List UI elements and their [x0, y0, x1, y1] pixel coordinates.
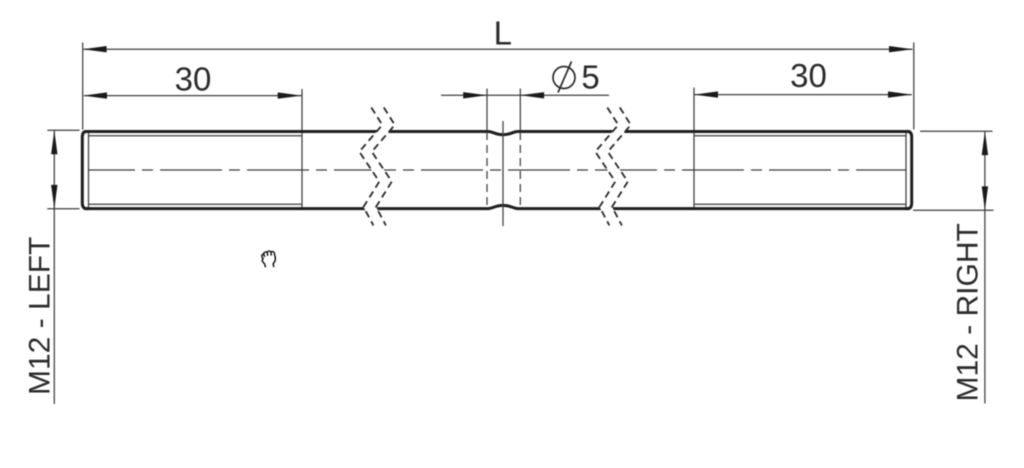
svg-text:5: 5 [581, 59, 599, 96]
svg-text:30: 30 [175, 61, 212, 98]
svg-text:M12 - LEFT: M12 - LEFT [24, 237, 57, 395]
svg-text:30: 30 [790, 57, 827, 94]
svg-text:M12 - RIGHT: M12 - RIGHT [951, 223, 984, 401]
svg-text:L: L [494, 14, 512, 51]
